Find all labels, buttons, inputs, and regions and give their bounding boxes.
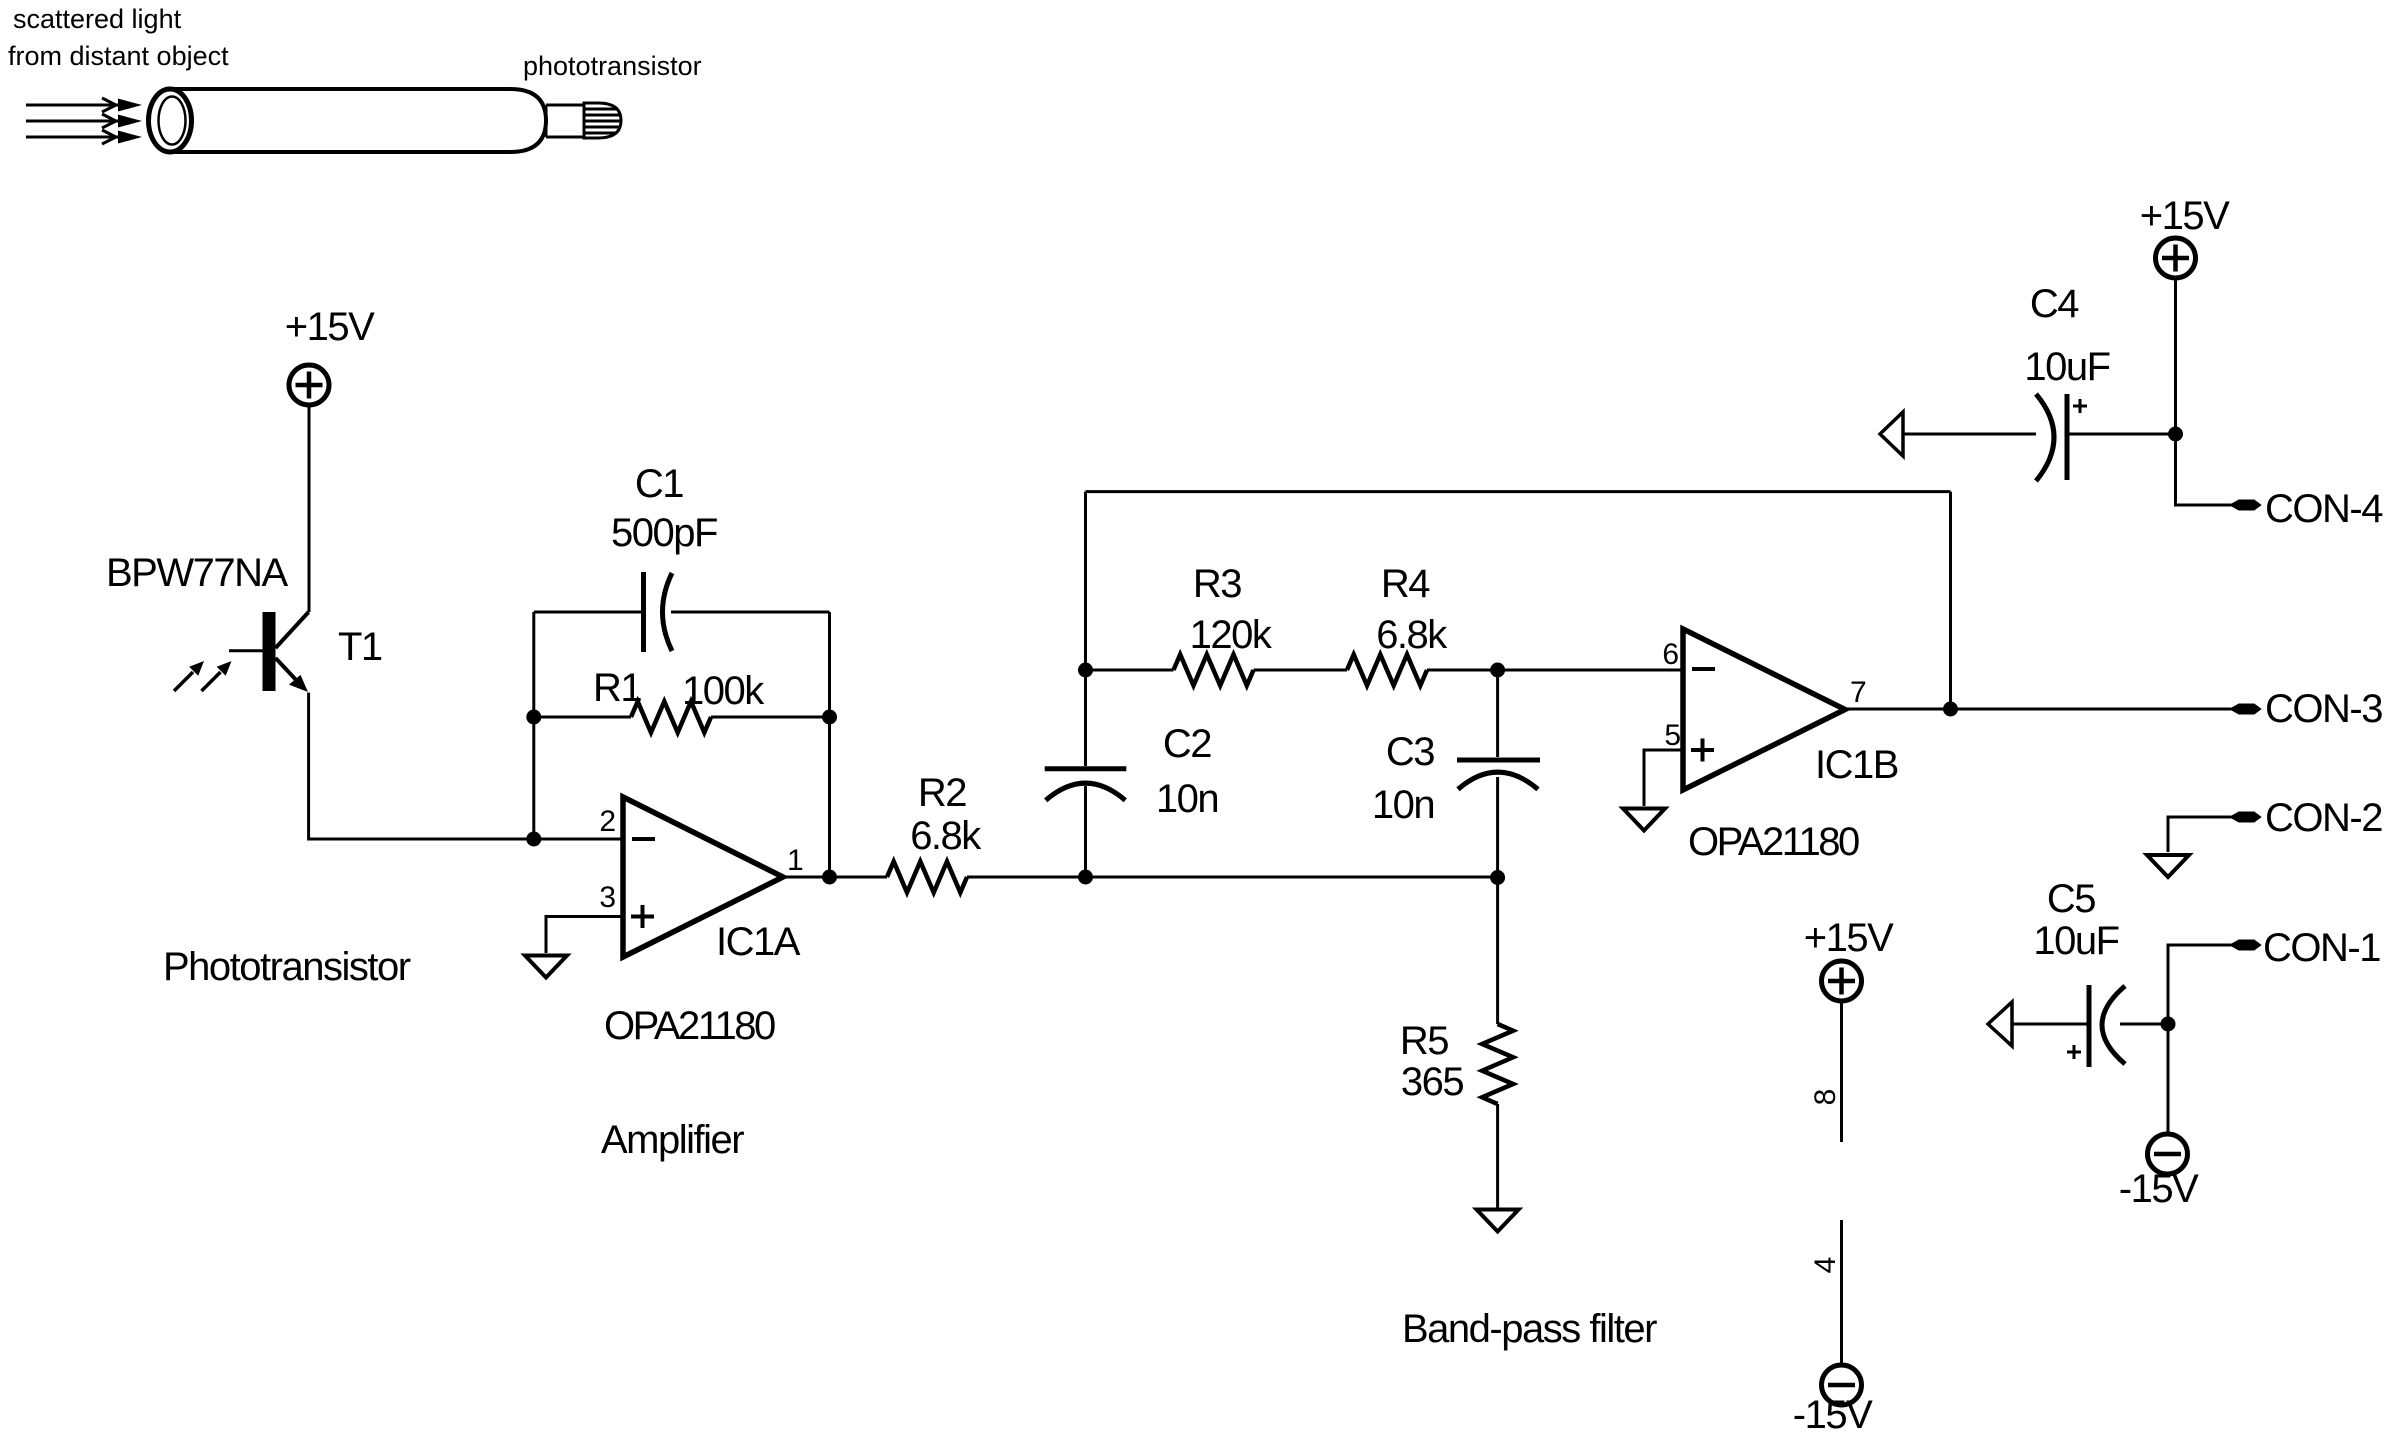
svg-text:4: 4 bbox=[1809, 1257, 1842, 1274]
resistor R2 bbox=[887, 862, 967, 893]
op-amp IC1A bbox=[623, 797, 783, 957]
power symbol -15V (C5) bbox=[2148, 1134, 2188, 1174]
wire: feedback top (C1 row) bbox=[534, 611, 830, 614]
svg-text:10n: 10n bbox=[1156, 777, 1218, 821]
svg-text:+15V: +15V bbox=[285, 305, 375, 349]
wire: R3/R4 row bbox=[1086, 669, 1684, 672]
wire: IC1 pin 8 supply bbox=[1840, 1001, 1843, 1142]
svg-text:R2: R2 bbox=[918, 771, 966, 815]
svg-text:R4: R4 bbox=[1381, 562, 1430, 606]
svg-text:120k: 120k bbox=[1190, 613, 1273, 657]
svg-text:IC1A: IC1A bbox=[716, 920, 801, 964]
node: output/feedback junction bbox=[822, 870, 837, 885]
power symbol -15V (IC1 supply) bbox=[1822, 1365, 1862, 1405]
node: C5/CON-1 junction bbox=[2161, 1017, 2176, 1032]
wire: junction to R5 bbox=[1496, 878, 1499, 1025]
wire: IC1A output bbox=[783, 876, 887, 879]
svg-text:3: 3 bbox=[599, 881, 616, 914]
svg-text:10uF: 10uF bbox=[2024, 345, 2109, 389]
resistor R3 bbox=[1174, 655, 1254, 686]
op-amp IC1B bbox=[1683, 629, 1845, 790]
power symbol +15V (C4) bbox=[2156, 238, 2196, 278]
svg-text:C4: C4 bbox=[2030, 282, 2079, 326]
node: C4/+15V junction bbox=[2168, 427, 2183, 442]
svg-text:-15V: -15V bbox=[2119, 1167, 2199, 1211]
wire: C4 to +15V node bbox=[2067, 433, 2176, 436]
power symbol +15V (IC1 supply) bbox=[1822, 961, 1862, 1001]
svg-text:T1: T1 bbox=[338, 625, 382, 669]
collimator tube body bbox=[168, 89, 546, 152]
wire: R2 to band-pass input bus bbox=[967, 876, 1498, 879]
svg-text:CON-4: CON-4 bbox=[2265, 487, 2383, 531]
svg-text:7: 7 bbox=[1850, 676, 1867, 709]
ground (IC1A pin3) bbox=[525, 956, 567, 978]
wire: C5 to CON-1 line bbox=[2120, 1023, 2168, 1026]
terminal CON-3 bbox=[2231, 705, 2260, 714]
wire: IC1 pin 4 supply bbox=[1840, 1220, 1843, 1365]
svg-text:IC1B: IC1B bbox=[1815, 743, 1898, 787]
svg-text:+15V: +15V bbox=[1804, 916, 1894, 960]
photon arrow 1 into T1 bbox=[174, 661, 204, 691]
light ray arrow 2 bbox=[26, 114, 142, 128]
IC1B non-inverting mark bbox=[1691, 739, 1714, 762]
svg-text:365: 365 bbox=[1401, 1060, 1463, 1104]
ground (R5) bbox=[1477, 1210, 1519, 1232]
svg-text:phototransistor: phototransistor bbox=[523, 51, 702, 81]
light ray arrow 1 bbox=[26, 98, 142, 112]
svg-text:10uF: 10uF bbox=[2033, 919, 2118, 963]
resistor R1 bbox=[534, 702, 830, 733]
photon arrow 2 into T1 bbox=[202, 661, 232, 691]
svg-text:CON-1: CON-1 bbox=[2263, 926, 2380, 970]
svg-text:scattered light: scattered light bbox=[13, 4, 182, 34]
wire: C3 vertical bottom bbox=[1496, 777, 1499, 878]
transistor T1 (phototransistor) bbox=[229, 612, 309, 692]
off-page arrow (C4) bbox=[1880, 412, 1903, 456]
svg-text:8: 8 bbox=[1809, 1089, 1842, 1106]
wire: feedback right vertical bbox=[1949, 492, 1952, 709]
svg-text:R5: R5 bbox=[1400, 1019, 1448, 1063]
wire: arrow to C5 bbox=[2012, 1023, 2089, 1026]
ground (CON-2) bbox=[2147, 855, 2189, 877]
collimator tube opening ellipse bbox=[149, 89, 192, 152]
capacitor C3 bbox=[1457, 760, 1540, 789]
wire: +15V to T1 collector bbox=[308, 405, 311, 612]
node: R1 right junction bbox=[822, 710, 837, 725]
wire: IC1A pin3 to ground bbox=[546, 917, 623, 954]
svg-text:1: 1 bbox=[787, 844, 804, 877]
wire: CON-2 to ground bbox=[2168, 817, 2231, 852]
svg-text:5: 5 bbox=[1664, 719, 1681, 752]
wire: IC1B pin5 to ground bbox=[1644, 750, 1683, 806]
tube neck bbox=[546, 105, 584, 137]
wire: +15V down to C4 node bbox=[2174, 278, 2177, 434]
node: R3 input junction bbox=[1078, 663, 1093, 678]
svg-text:C1: C1 bbox=[635, 462, 683, 506]
terminal CON-4 bbox=[2231, 501, 2260, 510]
svg-text:-15V: -15V bbox=[1793, 1393, 1873, 1437]
svg-text:R3: R3 bbox=[1193, 562, 1241, 606]
node: C3/R5 junction bbox=[1490, 870, 1505, 885]
collimator tube opening inner ring bbox=[159, 97, 186, 145]
phototransistor tip stripes bbox=[583, 109, 621, 133]
svg-text:C5: C5 bbox=[2047, 877, 2095, 921]
capacitor C4 bbox=[2036, 394, 2087, 481]
node: output feedback junction bbox=[1943, 702, 1958, 717]
node: junction T1/feedback at pin2 bbox=[526, 832, 541, 847]
off-page arrow (C5) bbox=[1988, 1002, 2012, 1046]
IC1A non-inverting mark bbox=[631, 905, 654, 928]
light ray arrow 3 bbox=[26, 130, 142, 144]
IC1B inverting mark bbox=[1692, 667, 1715, 671]
ground (IC1B pin5) bbox=[1623, 809, 1665, 831]
svg-text:CON-2: CON-2 bbox=[2265, 796, 2382, 840]
wire: feedback right vertical bbox=[828, 612, 831, 877]
svg-text:10n: 10n bbox=[1372, 783, 1434, 827]
svg-text:BPW77NA: BPW77NA bbox=[106, 551, 288, 595]
svg-text:6.8k: 6.8k bbox=[910, 814, 982, 858]
svg-text:OPA21180: OPA21180 bbox=[1688, 820, 1859, 864]
wire: CON-1 down to -15V bbox=[2168, 945, 2231, 1134]
svg-text:OPA21180: OPA21180 bbox=[604, 1004, 775, 1048]
node: C2 bottom junction bbox=[1078, 870, 1093, 885]
wire: band-pass feedback top bbox=[1086, 490, 1951, 493]
svg-text:500pF: 500pF bbox=[611, 511, 717, 555]
resistor R5 bbox=[1482, 1024, 1513, 1104]
wire: node down to CON-4 bbox=[2176, 434, 2232, 505]
wire: feedback left vertical bbox=[532, 612, 535, 839]
capacitor C5 bbox=[2067, 985, 2125, 1067]
svg-text:6.8k: 6.8k bbox=[1376, 613, 1448, 657]
wire: IC1B output to CON-3 bbox=[1845, 708, 2231, 711]
wire: arrow to C4 bbox=[1903, 433, 2036, 436]
phototransistor tip (striped) bbox=[584, 103, 621, 138]
capacitor C1 bbox=[644, 572, 673, 652]
wire: T1 emitter down and right to IC1A inverting input bbox=[309, 693, 623, 839]
svg-text:C2: C2 bbox=[1163, 722, 1211, 766]
terminal CON-2 bbox=[2231, 813, 2260, 822]
node: R4/C3 junction bbox=[1490, 663, 1505, 678]
terminal CON-1 bbox=[2231, 941, 2260, 950]
IC1A inverting mark bbox=[632, 837, 655, 841]
resistor R4 bbox=[1347, 655, 1427, 686]
svg-text:R1: R1 bbox=[593, 666, 641, 710]
wire: C3 vertical top bbox=[1496, 670, 1499, 757]
wire: R5 to ground bbox=[1496, 1104, 1499, 1208]
power symbol +15V (T1 supply) bbox=[289, 365, 329, 405]
wire: band-pass left vertical bbox=[1084, 492, 1087, 877]
svg-text:Phototransistor: Phototransistor bbox=[163, 945, 411, 989]
svg-text:C3: C3 bbox=[1386, 730, 1434, 774]
svg-text:Amplifier: Amplifier bbox=[601, 1118, 744, 1162]
svg-text:Band-pass filter: Band-pass filter bbox=[1402, 1307, 1657, 1351]
svg-text:CON-3: CON-3 bbox=[2265, 687, 2382, 731]
node: R1 left junction bbox=[526, 710, 541, 725]
svg-text:2: 2 bbox=[599, 805, 616, 838]
svg-text:+15V: +15V bbox=[2140, 194, 2230, 238]
svg-text:from distant object: from distant object bbox=[8, 41, 229, 71]
svg-text:6: 6 bbox=[1662, 638, 1679, 671]
capacitor C2 bbox=[1045, 769, 1127, 801]
